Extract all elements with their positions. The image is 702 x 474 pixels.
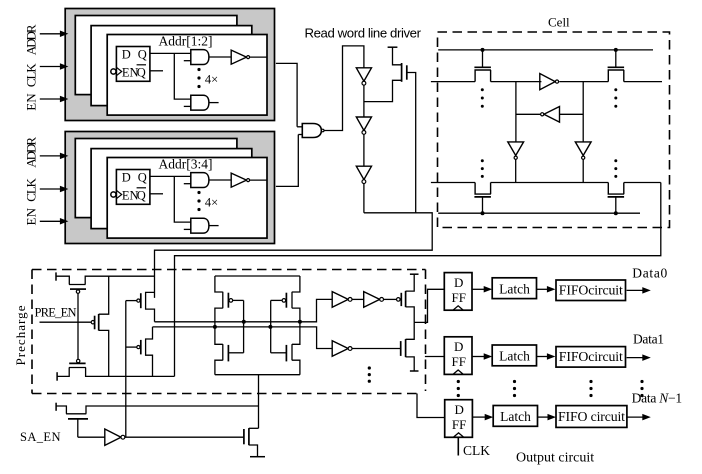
input arrow 1 (upper address block) — [40, 31, 69, 38]
svg-text:Precharge: Precharge — [13, 305, 28, 365]
svg-text:EN: EN — [24, 93, 39, 111]
cell bottom rail — [438, 212, 640, 214]
Latch2 box — [492, 345, 536, 366]
D flip-flop DFF1 — [444, 273, 472, 311]
keeper transistor Q1 — [364, 47, 407, 101]
bit line wire B — [153, 327, 333, 349]
arrow Latch2 to FIFO2 — [537, 353, 556, 360]
precharge PMOS P3 (middle vertical) — [91, 276, 108, 376]
svg-text:Q: Q — [138, 170, 147, 184]
wire NAND out up to inverter chain — [324, 46, 364, 131]
label Data0 — [632, 265, 667, 280]
cell word line upper — [431, 81, 662, 83]
FIFO1 box — [556, 280, 626, 301]
label Output circuit — [516, 450, 594, 465]
stacked white box (middle) (lower address block) — [91, 149, 252, 229]
label Cell — [548, 15, 570, 30]
DFF clock wedge (upper address block) — [116, 67, 121, 75]
DFF pin label Q (upper address block) — [138, 47, 147, 61]
label 4x (lower address block) — [205, 195, 218, 209]
svg-text:D: D — [122, 47, 131, 61]
svg-text:CLK: CLK — [463, 443, 490, 458]
isolation PMOS P5 (lower pass) — [126, 327, 153, 377]
wire cell bit line to precharge — [175, 183, 661, 377]
rotated label EN (upper) — [24, 93, 39, 111]
output driver NMOS N3 — [401, 322, 419, 371]
junction dot bottom rail right — [614, 211, 618, 215]
rotated label ADDR (lower) — [24, 137, 39, 168]
input arrow 1 (lower address block) — [40, 153, 69, 160]
svg-text:4×: 4× — [205, 72, 218, 86]
output arrow Data0 — [627, 287, 651, 294]
rotated label ADDR (upper) — [24, 24, 39, 55]
wire Q to AND gate (lower address block) — [150, 175, 191, 177]
svg-text:FIFO circuit: FIFO circuit — [558, 409, 625, 424]
input arrow 2 (lower address block) — [40, 186, 69, 193]
sense amp bottom rail — [215, 374, 300, 376]
cell access transistor M4 (bottom right) — [608, 183, 625, 214]
arrow Latch1 to FIFO1 — [537, 286, 556, 293]
svg-text:Addr[3:4]: Addr[3:4] — [159, 157, 213, 172]
junction dots wire B — [213, 325, 273, 329]
arrow DFF2 to Latch2 — [472, 353, 492, 360]
wire PRE_EN gates vertical — [77, 293, 79, 359]
svg-text:Q: Q — [137, 188, 146, 202]
wire SA_EN input — [78, 436, 105, 438]
label CLK — [463, 443, 490, 458]
DFF pin label Q (lower address block) — [138, 170, 147, 184]
DFF pin label D (lower address block) — [122, 170, 131, 184]
rotated label EN (lower) — [24, 207, 39, 225]
svg-text:FF: FF — [452, 354, 466, 369]
svg-text:PRE_EN: PRE_EN — [35, 306, 77, 320]
ellipsis below M1 — [481, 88, 484, 108]
keeper transistor supply T-bar — [388, 46, 398, 48]
FIFO3 box — [556, 406, 627, 428]
Precharge dashed box — [32, 270, 426, 394]
sense enable NMOS N5 — [244, 428, 265, 457]
Latch1 box — [492, 278, 536, 299]
svg-text:Latch: Latch — [500, 409, 531, 424]
svg-text:CLK: CLK — [24, 177, 39, 201]
wire Q branch down to lower AND (upper address block) — [174, 53, 191, 99]
output buffer (lower address block) — [231, 173, 267, 187]
stacked white box (middle) (upper address block) — [91, 26, 252, 106]
label 4x (upper address block) — [205, 72, 218, 86]
wire to DFF2 — [425, 356, 444, 358]
wire driver output / read word line — [155, 213, 433, 298]
SA_EN inverter — [105, 429, 125, 445]
sense amp NMOS N1 (left) — [215, 327, 244, 375]
label PRE_EN — [35, 306, 77, 320]
svg-text:ADDR: ADDR — [24, 137, 39, 168]
output arrow Data1 — [627, 354, 651, 361]
AND gate A1 (lower address block) — [184, 173, 209, 188]
label Addr[1:2] (upper address block) — [159, 34, 213, 49]
wire INV1 to INV2 — [363, 85, 365, 117]
arrow Latch3 to FIFO3 — [538, 414, 557, 421]
svg-text:FF: FF — [452, 290, 466, 305]
output buffer chain inverter BB1 — [332, 341, 352, 357]
arrow DFF1 to Latch1 — [472, 286, 492, 293]
wire CLK — [457, 437, 459, 455]
label Data1 — [633, 332, 664, 347]
DFF clock bubble (lower address block) — [111, 192, 116, 197]
DFF pin label Qbar (lower address block) — [137, 188, 146, 203]
wire A1 out to buffer (upper address block) — [209, 56, 231, 58]
ellipsis DFF column — [457, 380, 460, 397]
inverter chain INV2 — [356, 117, 371, 134]
svg-text:D: D — [454, 275, 463, 290]
wire Qbar stub (lower address block) — [150, 193, 163, 195]
AND gate A2 (lower address block) — [184, 218, 219, 233]
wire Q branch down to lower AND (lower address block) — [174, 176, 191, 222]
vertical dots (upper address block) — [197, 68, 200, 88]
wire sense output to DFF1 — [414, 289, 444, 322]
output arrow Data N-1 — [627, 414, 651, 421]
svg-text:Addr[1:2]: Addr[1:2] — [159, 34, 213, 49]
wire INV3 down to output node — [363, 184, 365, 213]
cell word line lower — [431, 182, 661, 184]
D flip-flop box (lower address block) — [116, 170, 149, 205]
ellipsis above M3 — [481, 159, 484, 178]
wire BA2 to P8 gate — [384, 298, 397, 300]
equalize NMOS N4 — [56, 403, 258, 438]
inverter chain INV3 — [356, 166, 371, 183]
svg-text:Output circuit: Output circuit — [516, 450, 594, 465]
svg-text:Q: Q — [138, 47, 147, 61]
label SA_EN — [20, 430, 61, 444]
wire lower block output to NAND input — [276, 135, 298, 187]
rotated label CLK (upper) — [24, 63, 39, 87]
svg-text:Read word line driver: Read word line driver — [305, 25, 422, 40]
wire keeper gate down — [407, 73, 416, 213]
DFF pin label Qbar (upper address block) — [137, 65, 146, 80]
AND gate A1 (upper address block) — [184, 50, 209, 65]
sense amp tail wire — [258, 375, 260, 429]
DFF pin label EN (lower address block) — [122, 188, 139, 202]
stacked white box (back) (lower address block) — [75, 139, 237, 218]
inverter chain INV1 — [356, 68, 371, 85]
input arrow 3 (lower address block) — [40, 218, 69, 225]
junction dots wire A — [242, 320, 302, 324]
cell top rail — [438, 49, 653, 51]
output buffer (upper address block) — [231, 50, 267, 64]
svg-text:4×: 4× — [205, 195, 218, 209]
stacked white box (front) (lower address block) — [107, 158, 267, 239]
stacked white box (front) (upper address block) — [107, 35, 267, 116]
cell latch forward inverter — [540, 74, 559, 90]
wire SA_EN inverter out — [125, 436, 244, 438]
cell latch left vertical — [515, 82, 517, 142]
DFF pin label D (upper address block) — [122, 47, 131, 61]
output driver PMOS P8 — [397, 274, 419, 322]
svg-text:FF: FF — [452, 417, 466, 432]
cell latch right vertical — [582, 82, 584, 142]
DFF clock bubble (upper address block) — [111, 69, 116, 74]
cell access transistor M3 (bottom left) — [474, 183, 491, 214]
wire isolation gates vertical — [125, 301, 127, 438]
Latch3 box — [493, 406, 537, 427]
svg-text:D: D — [454, 339, 463, 354]
bit line wire A — [155, 299, 333, 321]
AND gate A2 (upper address block) — [184, 95, 219, 110]
ellipsis Data column — [640, 380, 643, 397]
svg-text:Latch: Latch — [499, 281, 530, 296]
svg-text:D: D — [122, 170, 131, 184]
sense amp PMOS P6 (left) — [215, 276, 244, 327]
wire to DFF3 — [417, 394, 445, 418]
label Data N-1 — [632, 391, 683, 406]
junction dot bottom rail left — [481, 211, 485, 215]
wire BA1 to BA2 — [352, 298, 364, 300]
FIFO2 box — [556, 347, 626, 368]
junction dot top rail right — [614, 48, 618, 52]
svg-text:Q: Q — [137, 65, 146, 79]
label Addr[3:4] (lower address block) — [159, 157, 213, 172]
output buffer chain inverter BA1 — [332, 292, 352, 308]
cell column inverter right (down) — [575, 142, 591, 183]
sense amp NMOS N2 (right) — [271, 322, 300, 375]
svg-text:Data N−1: Data N−1 — [632, 391, 683, 406]
wire A1 out to buffer (lower address block) — [209, 179, 231, 181]
sense amp top rail — [215, 275, 300, 277]
wire INV2 to INV3 — [363, 134, 365, 166]
gray box (lower address block) — [65, 132, 274, 244]
input arrow 3 (upper address block) — [40, 96, 69, 103]
svg-text:CLK: CLK — [24, 63, 39, 87]
svg-text:FIFOcircuit: FIFOcircuit — [559, 349, 623, 364]
svg-text:SA_EN: SA_EN — [20, 430, 61, 444]
gray box (upper address block) — [65, 9, 274, 121]
DFF clock wedge (lower address block) — [116, 190, 121, 198]
input arrow 2 (upper address block) — [40, 63, 69, 70]
cross-couple wire right — [270, 300, 272, 352]
precharge PMOS P1 (top left horizontal) — [56, 272, 155, 293]
DFF pin label EN (upper address block) — [122, 65, 139, 79]
arrow DFF3 to Latch3 — [472, 414, 493, 421]
svg-text:Latch: Latch — [499, 349, 530, 364]
D flip-flop box (upper address block) — [116, 47, 149, 82]
cell latch feedback inverter — [516, 107, 583, 123]
Cell dashed box — [438, 32, 670, 228]
svg-text:Data0: Data0 — [632, 265, 667, 280]
ellipsis FIFO column — [589, 380, 592, 397]
svg-text:EN: EN — [24, 207, 39, 225]
precharge PMOS P2 (bottom left horizontal) — [57, 359, 174, 380]
cell access transistor M1 (top left) — [474, 50, 491, 82]
wire BB1 to N3 gate — [352, 348, 401, 350]
svg-text:D: D — [454, 402, 463, 417]
ellipsis Latch column — [513, 380, 516, 397]
sense amp PMOS P7 (right) — [271, 276, 300, 322]
D flip-flop DFF2 — [444, 337, 472, 375]
wire PRE_EN — [40, 321, 92, 323]
stacked white box (back) (upper address block) — [75, 16, 237, 95]
cell access transistor M2 (top right) — [608, 50, 625, 82]
cross-couple wire left — [243, 300, 245, 352]
NAND gate U1 — [297, 124, 324, 138]
isolation PMOS P4 (upper pass) — [126, 292, 155, 321]
ellipsis in precharge block — [368, 366, 371, 382]
junction dot top rail left — [481, 48, 485, 52]
svg-text:ADDR: ADDR — [24, 24, 39, 55]
ellipsis below M2 — [614, 88, 617, 108]
vertical dots (lower address block) — [197, 191, 200, 211]
svg-text:Cell: Cell — [548, 15, 570, 30]
rotated label Precharge — [13, 305, 28, 365]
wire upper block output to NAND input — [276, 63, 297, 126]
wire Q to AND gate (upper address block) — [150, 52, 191, 54]
svg-text:FIFOcircuit: FIFOcircuit — [559, 282, 623, 297]
D flip-flop DFF3 — [445, 400, 473, 438]
label Read word line driver — [305, 25, 422, 40]
rotated label CLK (lower) — [24, 177, 39, 201]
wire Qbar stub (upper address block) — [150, 70, 163, 72]
output buffer chain inverter BA2 — [364, 292, 384, 308]
svg-text:Data1: Data1 — [633, 332, 664, 347]
cell column inverter left (down) — [508, 142, 524, 183]
ellipsis above M4 — [614, 159, 617, 178]
